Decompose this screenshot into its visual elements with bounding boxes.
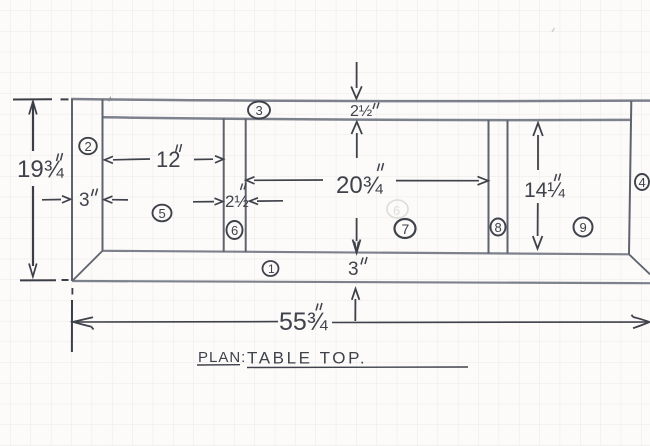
dimension 55 3/4 extension line bbox=[71, 300, 73, 352]
svg-text:55¾: 55¾ bbox=[279, 308, 329, 336]
dimension 19 3/4 vertical line lower bbox=[32, 186, 34, 266]
svg-text:4: 4 bbox=[639, 175, 646, 190]
circle 1 bbox=[263, 261, 279, 276]
dimension 55 3/4 right arrowhead bbox=[632, 315, 650, 328]
dimension 3in stile right arrow bbox=[104, 196, 128, 203]
divider 6 right vertical bbox=[245, 119, 247, 253]
divider 8 left vertical bbox=[488, 120, 490, 253]
right inner vertical edge bbox=[629, 101, 631, 255]
svg-text:3: 3 bbox=[256, 103, 263, 118]
inner bottom edge (3in rail top line) bbox=[103, 251, 630, 255]
svg-text:3: 3 bbox=[348, 259, 359, 280]
circle 5 bbox=[153, 205, 172, 222]
small tick on top edge bbox=[109, 98, 112, 102]
circle 7 bbox=[395, 219, 416, 238]
svg-text:8: 8 bbox=[495, 220, 502, 235]
svg-text:TABLE TOP.: TABLE TOP. bbox=[247, 349, 367, 368]
dimension 55 3/4 line left segment bbox=[74, 321, 278, 323]
dimension 2.5in divider right arrow bbox=[250, 198, 284, 205]
svg-text:1: 1 bbox=[268, 262, 275, 276]
svg-text:2½: 2½ bbox=[225, 192, 249, 211]
dimension 19 3/4 down arrowhead bbox=[29, 264, 37, 277]
svg-text:12: 12 bbox=[156, 147, 180, 172]
bottom right corner diagonal bbox=[629, 254, 650, 274]
dimension 3in bottom rail up arrow bbox=[352, 289, 360, 321]
svg-text:20¾: 20¾ bbox=[336, 172, 384, 199]
dimension 19 3/4 up arrowhead bbox=[29, 102, 37, 115]
title PLAN underline bbox=[197, 364, 240, 366]
label 2.5 inch top rail bbox=[350, 103, 379, 121]
label 2.5 inch divider bbox=[225, 183, 249, 211]
dimension 12in left arrow bbox=[105, 156, 151, 163]
label 3 inch stile bbox=[79, 189, 98, 212]
circle 3 bbox=[248, 102, 270, 119]
label 20 3/4 inch bbox=[336, 163, 384, 199]
dimension 14 1/4 down arrow bbox=[533, 203, 543, 249]
dimension 55 3/4 line right segment bbox=[332, 321, 648, 324]
label 19 3/4 inch bbox=[17, 153, 65, 183]
svg-text:7: 7 bbox=[402, 221, 410, 237]
circle 2 bbox=[79, 138, 97, 154]
table top outer top edge bbox=[71, 99, 650, 101]
svg-text:5: 5 bbox=[159, 206, 166, 221]
dimension 3in stile left arrow bbox=[42, 196, 71, 203]
divider 6 left vertical bbox=[223, 118, 225, 252]
divider 8 right vertical bbox=[507, 120, 509, 253]
dimension 55 3/4 left arrowhead bbox=[73, 317, 94, 329]
dimension 20 3/4 right arrow bbox=[396, 177, 488, 185]
dimension 2.5in divider left arrow bbox=[193, 198, 223, 205]
faint pencil mark top right bbox=[552, 28, 555, 32]
left outer vertical edge bbox=[71, 99, 73, 281]
dash left of bottom corner bbox=[62, 279, 69, 281]
inner top edge (2.5in rail bottom line) bbox=[103, 117, 630, 120]
left inner vertical (3in stile) bbox=[102, 99, 104, 251]
svg-text:2: 2 bbox=[85, 139, 92, 154]
svg-text:2½: 2½ bbox=[350, 103, 372, 120]
label 55 3/4 inch bbox=[279, 303, 329, 336]
title long underline bbox=[247, 366, 468, 369]
dimension 12in right arrow bbox=[194, 156, 223, 163]
circle 4 bbox=[635, 174, 649, 190]
svg-text:6: 6 bbox=[231, 223, 238, 238]
circle 6 bbox=[227, 221, 243, 239]
svg-text:6: 6 bbox=[393, 203, 400, 218]
dimension 2.5in top rail up arrow bbox=[352, 122, 363, 158]
svg-text:PLAN:: PLAN: bbox=[198, 349, 246, 366]
circle 9 bbox=[574, 218, 593, 237]
dimension 3in bottom rail down arrow bbox=[353, 218, 361, 253]
dimension 19 3/4 vertical line upper bbox=[32, 102, 34, 152]
dimension 55 3/4 extension dash below corner bbox=[71, 288, 73, 295]
bottom left corner diagonal bbox=[72, 251, 102, 281]
label 12 inch bbox=[156, 144, 182, 172]
svg-text:19¾: 19¾ bbox=[17, 156, 65, 183]
dimension 2.5in top rail down arrow bbox=[351, 62, 362, 99]
dimension 14 1/4 up arrow bbox=[533, 123, 543, 170]
svg-text:14¼: 14¼ bbox=[524, 179, 565, 202]
circle 8 bbox=[491, 219, 506, 236]
ghost erased circle 6 near circle 7 bbox=[387, 200, 408, 218]
label 3 inch bottom rail bbox=[348, 257, 367, 280]
label 14 1/4 inch bbox=[524, 174, 565, 203]
outer bottom edge bbox=[72, 281, 650, 283]
svg-text:3: 3 bbox=[79, 190, 90, 211]
dimension 19 3/4 top tick line bbox=[13, 98, 52, 100]
dimension 19 3/4 bottom tick line bbox=[20, 279, 56, 281]
dimension 20 3/4 left arrow bbox=[246, 177, 323, 184]
dash between tick and table corner bbox=[61, 98, 69, 100]
svg-text:9: 9 bbox=[580, 220, 587, 235]
